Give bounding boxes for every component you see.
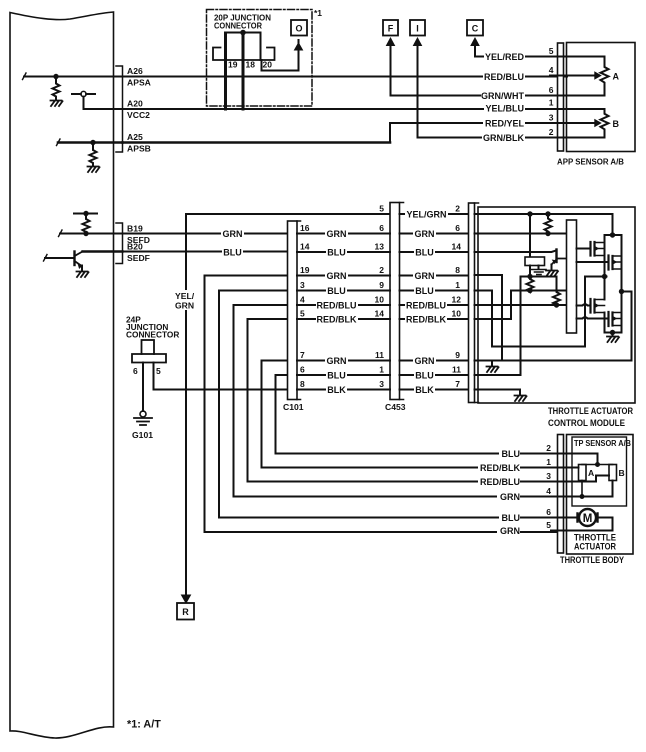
wire row1 C453 to module <box>400 213 469 215</box>
wire VCC2 internal to A20 <box>114 108 123 110</box>
svg-text:ACTUATOR: ACTUATOR <box>574 542 616 552</box>
arrow into R box <box>182 595 191 603</box>
row2 inside <box>475 233 567 235</box>
svg-text:3: 3 <box>300 280 305 290</box>
row GRN4 bottom link <box>551 481 613 497</box>
module connector bar <box>469 203 475 403</box>
wire A26/APSA to RED/BLU line <box>123 76 568 78</box>
svg-text:BLK: BLK <box>415 385 434 395</box>
wire row5 segments <box>297 290 469 292</box>
row3 inside to BJT <box>475 251 557 253</box>
wire A25/APSB to step <box>123 141 391 144</box>
svg-text:9: 9 <box>455 350 460 360</box>
sense link row <box>511 290 567 292</box>
wire label GRN/BLK <box>482 132 525 143</box>
TB connector bar <box>558 435 564 554</box>
BJT driver transistor <box>546 250 567 277</box>
transistor inside block <box>44 252 89 278</box>
APP pot B <box>550 109 609 138</box>
svg-text:THROTTLE BODY: THROTTLE BODY <box>560 555 624 565</box>
wire row3 BLU vertical to BLU6 <box>219 291 558 518</box>
svg-text:3: 3 <box>546 471 551 481</box>
resistor R1 <box>527 277 534 293</box>
svg-text:2: 2 <box>549 127 554 137</box>
svg-text:BLK: BLK <box>327 385 346 395</box>
driver IC bus bar <box>567 220 577 333</box>
resistor inside block on APSB line <box>88 143 100 173</box>
svg-text:GRN: GRN <box>223 229 243 239</box>
row5 inside + path to bridge A <box>475 277 607 347</box>
wire B19 to C101 <box>123 233 288 235</box>
svg-text:GRN: GRN <box>415 229 435 239</box>
svg-text:9: 9 <box>379 280 384 290</box>
wire GRN/BLK from I <box>418 137 568 139</box>
TP pot B rect <box>609 465 617 481</box>
svg-text:2: 2 <box>546 443 551 453</box>
svg-text:10: 10 <box>375 295 385 305</box>
svg-text:YEL/BLU: YEL/BLU <box>485 104 524 114</box>
wire row7 segments <box>297 318 469 320</box>
MOSFET M1 <box>577 242 605 256</box>
relay coil box <box>525 257 545 266</box>
TP sensor inner box <box>572 437 627 506</box>
motor loop to GRN5 <box>597 518 613 531</box>
svg-text:CONNECTOR: CONNECTOR <box>214 21 262 31</box>
svg-text:5: 5 <box>379 204 384 214</box>
svg-text:6: 6 <box>379 223 384 233</box>
wire 24P pin5 to BLK row <box>154 363 288 390</box>
svg-text:8: 8 <box>300 379 305 389</box>
wire label RED/BLU <box>483 71 525 82</box>
wire row7 GRN vertical to REDBLK1 <box>262 361 558 468</box>
connector C101 bar <box>288 221 298 400</box>
svg-text:GRN: GRN <box>500 526 520 536</box>
row BLU6 to motor <box>551 517 578 519</box>
arrow wire to C <box>474 40 476 57</box>
wire pin18 thick <box>242 33 245 109</box>
svg-text:C101: C101 <box>283 402 304 412</box>
wire row4 segments <box>297 275 469 277</box>
svg-text:BLU: BLU <box>415 286 434 296</box>
wire pin19 thick <box>224 33 227 109</box>
svg-text:5: 5 <box>156 366 161 376</box>
svg-text:4: 4 <box>300 295 305 305</box>
row BLU2 into sensor <box>551 454 598 465</box>
svg-text:C: C <box>472 24 479 34</box>
svg-text:RED/BLK: RED/BLK <box>406 315 446 325</box>
wire row4 RED/BLU vertical to GRN4 <box>234 305 558 497</box>
svg-text:8: 8 <box>455 265 460 275</box>
wire SEFD internal <box>60 233 123 235</box>
break slash APSA <box>23 73 27 80</box>
label YEL/GRN vertical <box>174 290 195 311</box>
connector box I <box>410 20 425 36</box>
svg-text:F: F <box>388 24 394 34</box>
wire VCC tap down to VCC2 line <box>84 97 115 109</box>
svg-text:13: 13 <box>375 242 385 252</box>
row GRN5 <box>551 530 613 532</box>
wire row5 RED/BLK vertical to REDBLU3 <box>248 319 558 482</box>
svg-text:6: 6 <box>300 365 305 375</box>
throttle body box <box>567 435 634 555</box>
wire pin20 to O box <box>261 40 299 71</box>
row8 inside to right rail <box>475 292 632 361</box>
svg-text:BLU: BLU <box>327 286 346 296</box>
wire row2 segments <box>297 233 469 235</box>
relay coil feed <box>529 214 531 257</box>
wire SEDF internal collector to edge <box>83 250 123 252</box>
svg-text:APP SENSOR A/B: APP SENSOR A/B <box>557 157 624 167</box>
resistor R2 <box>553 277 560 306</box>
wire APSB internal <box>58 141 123 144</box>
svg-text:CONNECTOR: CONNECTOR <box>126 330 179 340</box>
break slash APSB <box>57 139 61 146</box>
svg-text:GRN: GRN <box>415 271 435 281</box>
svg-text:O: O <box>295 24 302 34</box>
MOSFET M2 <box>577 256 622 270</box>
svg-text:4: 4 <box>546 486 551 496</box>
row REDBLU3 to pot B <box>551 476 609 482</box>
MOSFET M3 <box>577 299 605 313</box>
svg-text:1: 1 <box>549 98 554 108</box>
svg-text:APSA: APSA <box>127 78 151 88</box>
wire label YEL/RED <box>484 51 525 62</box>
node link horizontal <box>521 276 557 278</box>
svg-text:1: 1 <box>546 457 551 467</box>
node dot on APSB line <box>90 140 95 145</box>
bridge ground <box>610 330 615 335</box>
svg-text:RED/BLU: RED/BLU <box>484 72 524 82</box>
svg-text:SEDF: SEDF <box>127 253 150 263</box>
TP pot A rect <box>579 465 587 481</box>
row4 inside + descent <box>475 275 503 361</box>
connector box O <box>291 20 307 36</box>
wire row8 segments <box>297 360 469 362</box>
svg-text:B: B <box>613 119 620 129</box>
connector C453 bar <box>390 203 400 400</box>
labels between C101 and C453 <box>325 228 348 239</box>
ground G101 <box>140 411 146 417</box>
ECM/PCM block outline <box>10 12 114 738</box>
connector bracket B19/B20 <box>116 223 123 264</box>
svg-text:2: 2 <box>379 265 384 275</box>
svg-text:19: 19 <box>300 265 310 275</box>
wire B20 to C101 <box>123 251 288 253</box>
svg-text:4: 4 <box>549 65 554 75</box>
svg-text:20: 20 <box>263 60 273 70</box>
row labels between block and C101 <box>221 228 244 239</box>
wire row9 segments <box>297 374 469 376</box>
svg-text:GRN/BLK: GRN/BLK <box>483 133 524 143</box>
svg-text:7: 7 <box>455 379 460 389</box>
wire row3 segments <box>297 251 469 253</box>
resistor on B19 line inside block <box>83 214 90 234</box>
wire row6 segments <box>297 304 469 306</box>
M2 rail <box>621 235 623 312</box>
svg-text:G101: G101 <box>132 430 153 440</box>
svg-text:RED/BLU: RED/BLU <box>317 301 357 311</box>
connector bracket A26/A20/A25 <box>116 66 123 152</box>
svg-text:RED/YEL: RED/YEL <box>485 119 525 129</box>
svg-text:YEL/RED: YEL/RED <box>485 52 525 62</box>
wire row6 BLU vertical to BLU2 <box>276 375 558 454</box>
svg-text:3: 3 <box>549 113 554 123</box>
svg-text:GRN: GRN <box>327 356 347 366</box>
svg-text:A26: A26 <box>127 66 143 76</box>
svg-text:I: I <box>416 24 419 34</box>
svg-text:14: 14 <box>375 309 385 319</box>
connector box R <box>177 603 194 620</box>
row7 inside + rise <box>475 291 512 320</box>
wire label RED/YEL <box>483 118 525 129</box>
svg-text:1: 1 <box>379 365 384 375</box>
M4 source rail <box>621 312 623 333</box>
resistor row1-row2 <box>545 214 552 234</box>
svg-text:3: 3 <box>379 379 384 389</box>
wire 24P pin6 to G101 <box>142 363 144 412</box>
svg-text:C453: C453 <box>385 402 406 412</box>
svg-text:M: M <box>583 513 593 525</box>
svg-text:5: 5 <box>546 520 551 530</box>
wire YEL/RED from C <box>475 56 567 58</box>
svg-text:BLU: BLU <box>415 248 434 258</box>
bottom wire labels <box>499 448 520 459</box>
svg-text:12: 12 <box>452 295 462 305</box>
20P trough <box>213 48 275 61</box>
APP sensor box <box>567 43 636 152</box>
svg-text:B19: B19 <box>127 224 143 234</box>
svg-text:*1: A/T: *1: A/T <box>127 719 161 731</box>
connector box F <box>383 20 398 36</box>
svg-text:YEL/: YEL/ <box>175 291 195 301</box>
row REDBLK1 to pot A <box>551 467 579 469</box>
svg-text:B: B <box>619 468 625 478</box>
wire step up to RED/YEL <box>390 123 567 143</box>
MOSFET M4 <box>577 312 622 326</box>
svg-text:11: 11 <box>452 365 461 375</box>
svg-text:RED/BLU: RED/BLU <box>480 477 520 487</box>
wire row10 segments <box>297 389 469 391</box>
VCC tap circle node <box>81 91 86 96</box>
svg-text:TP SENSOR A/B: TP SENSOR A/B <box>574 438 631 448</box>
svg-text:14: 14 <box>300 242 310 252</box>
row9 inside + rise <box>475 277 521 376</box>
throttle actuator motor <box>579 509 596 526</box>
svg-text:BLU: BLU <box>502 449 521 459</box>
wire A20/VCC2 to YEL/BLU line <box>123 108 568 110</box>
svg-text:A25: A25 <box>127 132 143 142</box>
20P junction connector dashed box <box>207 10 313 107</box>
resistor inside block on APSA line <box>51 77 63 107</box>
wire YEL/GRN vertical <box>186 214 390 597</box>
20P comb top bar with node <box>226 33 261 52</box>
svg-text:BLU: BLU <box>502 513 521 523</box>
M1 drain/source rail <box>604 235 606 300</box>
arrow wire to F <box>390 40 392 96</box>
svg-text:GRN: GRN <box>500 492 520 502</box>
svg-text:RED/BLK: RED/BLK <box>317 315 357 325</box>
svg-text:THROTTLE ACTUATOR: THROTTLE ACTUATOR <box>548 406 633 416</box>
svg-text:7: 7 <box>300 350 305 360</box>
node dot on APSA line <box>53 74 58 79</box>
labels right of C453 <box>405 209 448 220</box>
svg-text:5: 5 <box>300 309 305 319</box>
wire row19 GRN vertical to GRN5 <box>205 276 558 533</box>
svg-text:GRN/WHT: GRN/WHT <box>481 91 524 101</box>
ground stub row8 <box>491 361 493 367</box>
wire GRN/WHT from F <box>391 95 568 97</box>
TP top link <box>582 464 613 466</box>
svg-text:BLU: BLU <box>327 371 346 381</box>
svg-text:VCC2: VCC2 <box>127 110 150 120</box>
svg-text:B20: B20 <box>127 242 143 252</box>
svg-text:A20: A20 <box>127 99 143 109</box>
svg-text:11: 11 <box>375 350 384 360</box>
svg-text:16: 16 <box>300 223 310 233</box>
svg-text:6: 6 <box>546 507 551 517</box>
APP sensor connector bar <box>558 43 564 151</box>
row6 inside to bus <box>475 304 567 306</box>
svg-text:GRN: GRN <box>415 356 435 366</box>
arrow into O box <box>295 43 303 50</box>
svg-text:RED/BLK: RED/BLK <box>480 463 520 473</box>
row10 inside + ground <box>475 390 521 396</box>
svg-text:YEL/GRN: YEL/GRN <box>406 210 446 220</box>
connector box C <box>467 20 483 36</box>
svg-text:GRN: GRN <box>175 301 194 311</box>
svg-text:14: 14 <box>452 242 462 252</box>
supply bar above B19 resistor <box>74 213 97 215</box>
row1 inside: supply rail <box>475 214 613 235</box>
svg-text:BLU: BLU <box>415 371 434 381</box>
wire label GRN/WHT <box>481 90 525 101</box>
svg-text:CONTROL MODULE: CONTROL MODULE <box>548 418 625 428</box>
APP pot A <box>550 57 609 96</box>
24P junction connector symbol <box>142 340 155 354</box>
svg-text:APSB: APSB <box>127 144 151 154</box>
svg-text:10: 10 <box>452 309 462 319</box>
svg-text:18: 18 <box>246 60 256 70</box>
module box <box>478 207 635 403</box>
svg-text:GRN: GRN <box>327 229 347 239</box>
svg-text:2: 2 <box>455 204 460 214</box>
svg-text:BLU: BLU <box>327 248 346 258</box>
svg-text:BLU: BLU <box>223 248 242 258</box>
svg-text:1: 1 <box>455 280 460 290</box>
svg-text:19: 19 <box>228 60 238 70</box>
svg-text:6: 6 <box>549 85 554 95</box>
VCC tap bar <box>72 93 95 95</box>
svg-text:6: 6 <box>133 366 138 376</box>
bridge supply bracket <box>605 234 622 236</box>
wire APSA internal <box>24 76 123 78</box>
svg-text:A: A <box>588 468 594 478</box>
M3 lower rail <box>605 313 622 333</box>
arrow wire to I <box>417 40 419 138</box>
svg-text:GRN: GRN <box>327 271 347 281</box>
svg-text:A: A <box>613 72 620 82</box>
svg-text:R: R <box>182 607 189 617</box>
svg-text:RED/BLU: RED/BLU <box>406 301 446 311</box>
svg-text:6: 6 <box>455 223 460 233</box>
svg-text:*1: *1 <box>314 8 322 18</box>
chassis ground under relay <box>538 266 540 270</box>
wire label YEL/BLU <box>484 103 525 114</box>
relay bottom node <box>529 266 531 277</box>
svg-text:5: 5 <box>549 46 554 56</box>
